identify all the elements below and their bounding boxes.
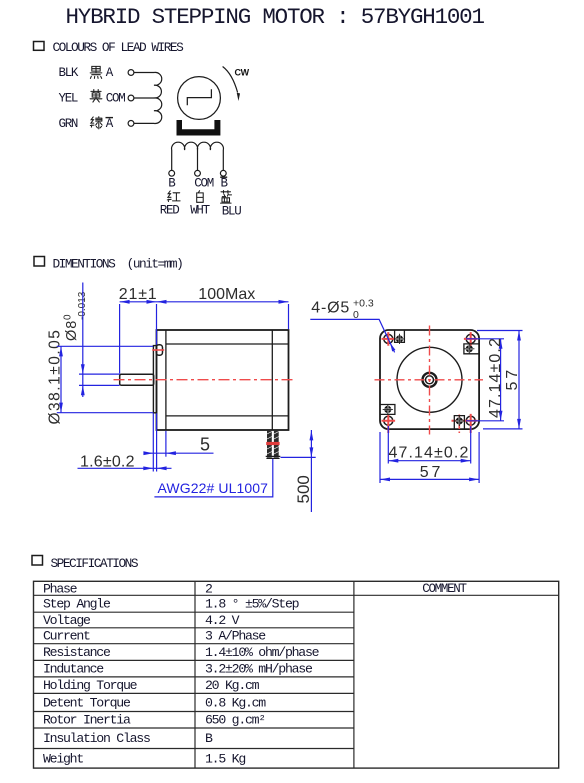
section checkbox: dimentions xyxy=(34,257,45,267)
ext line hole TR right xyxy=(466,338,504,340)
arrow 47r top xyxy=(499,339,503,349)
dim line dia8 xyxy=(82,283,84,398)
svg-text:100Max: 100Max xyxy=(198,286,255,303)
row line 1 xyxy=(34,594,559,596)
svg-text:Insulation Class: Insulation Class xyxy=(43,731,150,746)
svg-text:500: 500 xyxy=(294,475,313,503)
hole BR xyxy=(466,416,475,425)
hanzi red xyxy=(167,191,180,202)
dim 47.14 right text xyxy=(487,337,504,418)
hole TL cross xyxy=(382,332,396,346)
pilot flange xyxy=(153,346,156,413)
lead B-bar xyxy=(222,150,224,170)
lead B xyxy=(171,150,173,170)
ext line shaft bottom xyxy=(79,384,120,386)
svg-text:4-Ø5: 4-Ø5 xyxy=(311,300,350,317)
row line 5 xyxy=(34,659,354,661)
hanzi blue xyxy=(221,191,232,204)
flange hole capsule xyxy=(156,345,162,356)
ext line square top right xyxy=(477,330,523,332)
ext line shaft top xyxy=(79,373,120,375)
arrow 57b right xyxy=(469,478,479,482)
terminal A-bar xyxy=(128,121,134,127)
flange square xyxy=(380,330,479,429)
terminal COM2 xyxy=(195,170,201,176)
arrow 47r bottom xyxy=(499,411,503,421)
svg-text:COM: COM xyxy=(106,92,125,106)
hole TL xyxy=(384,334,393,343)
svg-text:47.14±0.2: 47.14±0.2 xyxy=(487,337,504,418)
dim line 1.6 xyxy=(78,467,172,469)
svg-text:21±1: 21±1 xyxy=(119,286,158,303)
leader arrowhead xyxy=(390,343,395,352)
row line 8 xyxy=(34,711,354,713)
svg-text:GRN: GRN xyxy=(59,117,78,131)
svg-text:4.2 V: 4.2 V xyxy=(205,613,240,628)
overline of A-bar xyxy=(106,117,114,119)
svg-text:WHT: WHT xyxy=(190,204,210,218)
screw TR xyxy=(464,344,474,354)
svg-text:CW: CW xyxy=(235,67,250,77)
center vertical centerline xyxy=(429,326,431,435)
column divider 1 xyxy=(194,581,196,768)
overline B-bar xyxy=(220,176,227,178)
dim line 21 and 100Max xyxy=(120,301,289,303)
wire A-bar xyxy=(134,122,154,124)
arrow 1.6 left xyxy=(143,466,153,470)
dim line 47.14 right xyxy=(500,339,502,421)
arrow 21 right xyxy=(147,300,157,304)
pilot circle xyxy=(397,347,462,412)
arrow 100 left xyxy=(157,300,167,304)
ext line square right down xyxy=(478,432,480,483)
svg-text:3.2±20% mH/phase: 3.2±20% mH/phase xyxy=(205,662,313,677)
hanzi yellow xyxy=(90,90,102,103)
top lamination line xyxy=(166,343,289,345)
svg-text:1.4±10% ohm/phase: 1.4±10% ohm/phase xyxy=(205,645,320,660)
dim line 5 xyxy=(145,452,214,454)
hanzi white xyxy=(197,191,204,203)
wire hatch xyxy=(267,432,279,455)
hole BR cross xyxy=(452,414,478,433)
screw BL xyxy=(383,404,393,414)
svg-text:+0.3: +0.3 xyxy=(353,298,374,310)
dim line 47.14 bottom xyxy=(388,460,470,462)
rotor circle xyxy=(178,77,221,120)
leader awg wire xyxy=(154,459,272,497)
dim 57 right text xyxy=(504,367,521,390)
ext line square bottom right xyxy=(483,428,523,430)
svg-text:57: 57 xyxy=(504,367,521,390)
svg-text:0: 0 xyxy=(63,314,74,320)
svg-text:Holding Torque: Holding Torque xyxy=(43,678,138,693)
wire COM xyxy=(134,97,154,99)
CW arc xyxy=(223,67,238,93)
arrow 57r top xyxy=(517,331,521,341)
svg-text:20 Kg.cm: 20 Kg.cm xyxy=(205,678,260,693)
arrow 57r bottom xyxy=(517,419,521,429)
dim line 57 bottom xyxy=(380,478,479,480)
arrow 5 right xyxy=(166,451,176,455)
CW arrowhead xyxy=(237,93,240,101)
ext line flange face xyxy=(156,304,158,345)
ext line body rear xyxy=(288,304,290,329)
svg-text:A: A xyxy=(106,117,114,131)
screw BR red centerline xyxy=(458,415,460,434)
phase B coil xyxy=(172,142,224,150)
ext line hole BR down xyxy=(470,426,472,464)
svg-text:RED: RED xyxy=(160,204,179,218)
svg-text:1.8 ° ±5%/Step: 1.8 ° ±5%/Step xyxy=(205,597,300,612)
ext line pilot bottom xyxy=(57,412,153,414)
hanzi black xyxy=(90,66,102,78)
screw BR pocket xyxy=(454,416,464,429)
row line 3 xyxy=(34,627,354,629)
arrow 500 bottom xyxy=(310,447,314,457)
leader 4-dia5 xyxy=(310,319,394,352)
ext line flange right xyxy=(156,413,158,471)
screw TR pocket xyxy=(464,344,479,354)
shaft boss ring xyxy=(423,373,437,387)
svg-text:HYBRID STEPPING MOTOR : 57BYGH: HYBRID STEPPING MOTOR : 57BYGH1001 xyxy=(66,4,485,30)
front endcap line xyxy=(165,330,167,430)
arrow 57b left xyxy=(380,478,390,482)
svg-text:A: A xyxy=(106,66,114,80)
screw TL xyxy=(394,334,404,344)
arrow dia8 bottom xyxy=(81,385,85,395)
dim 500 text xyxy=(294,475,313,503)
svg-text:COMMENT: COMMENT xyxy=(422,582,467,596)
svg-text:650 g.cm²: 650 g.cm² xyxy=(205,713,265,728)
arrow dia8 top xyxy=(81,364,85,374)
ext line flange left xyxy=(152,413,154,471)
svg-text:B: B xyxy=(221,177,229,191)
svg-text:Current: Current xyxy=(43,629,90,644)
svg-text:Voltage: Voltage xyxy=(43,613,91,628)
svg-text:3 A/Phase: 3 A/Phase xyxy=(205,629,266,644)
motor body outline xyxy=(157,330,289,430)
terminal A xyxy=(128,70,134,76)
phase A coil xyxy=(154,72,162,123)
svg-text:5: 5 xyxy=(200,435,210,455)
row line 6 xyxy=(34,676,354,678)
shaft centerline xyxy=(114,379,297,381)
row line 7 xyxy=(34,692,354,694)
lead wire 1 xyxy=(267,430,272,458)
table outer border xyxy=(34,581,559,768)
hole BL cross xyxy=(382,414,396,433)
svg-text:0.8 Kg.cm: 0.8 Kg.cm xyxy=(205,695,266,710)
svg-text:2: 2 xyxy=(205,581,212,596)
svg-text:AWG22# UL1007: AWG22# UL1007 xyxy=(158,480,269,496)
screw BR xyxy=(454,416,464,426)
screw BL pocket xyxy=(381,405,395,415)
hole BL xyxy=(384,416,393,425)
shaft circle xyxy=(426,376,434,384)
hole TR xyxy=(466,334,475,343)
screw TL pocket xyxy=(395,331,405,343)
ext line pilot top xyxy=(57,345,153,347)
ext line hole BL down xyxy=(387,426,389,464)
rotor step glyph xyxy=(187,89,211,105)
dim line 500 xyxy=(310,430,312,512)
shaft xyxy=(120,374,154,385)
arrow 21 left xyxy=(120,300,130,304)
ext line hole BR right xyxy=(466,420,504,422)
ext line wire end xyxy=(281,456,316,458)
terminal B-bar xyxy=(220,170,226,176)
svg-text:YEL: YEL xyxy=(59,92,78,106)
terminal COM xyxy=(128,95,134,101)
svg-text:Step Angle: Step Angle xyxy=(43,597,111,612)
svg-text:B: B xyxy=(205,731,213,746)
row line 9 xyxy=(34,727,354,729)
wire A xyxy=(134,72,154,74)
svg-text:BLU: BLU xyxy=(222,205,241,219)
svg-text:Weight: Weight xyxy=(43,751,83,766)
svg-text:Indutance: Indutance xyxy=(43,662,104,677)
stator bracket xyxy=(177,120,221,136)
row line 4 xyxy=(34,643,354,645)
section checkbox: specifications xyxy=(32,556,43,566)
arrow 1.6 right xyxy=(157,466,167,470)
svg-text:COLOURS OF LEAD WIRES: COLOURS OF LEAD WIRES xyxy=(53,40,185,55)
column divider 2 xyxy=(353,581,355,768)
lead COM2 xyxy=(197,150,199,170)
svg-text:Detent Torque: Detent Torque xyxy=(43,695,131,710)
svg-text:B: B xyxy=(168,177,176,191)
center horizontal centerline xyxy=(375,379,484,381)
hanzi green xyxy=(90,117,102,129)
svg-text:Rotor Inertia: Rotor Inertia xyxy=(43,713,131,728)
svg-text:SPECIFICATIONS: SPECIFICATIONS xyxy=(51,556,139,571)
row line 2 xyxy=(34,611,354,613)
wire end ticks xyxy=(266,456,281,458)
hole TR cross xyxy=(464,332,478,346)
ext line square left down xyxy=(379,432,381,483)
section checkbox: colours of lead wires xyxy=(34,42,45,51)
dim dia38.1 text xyxy=(47,329,64,425)
ext line endcap xyxy=(165,431,167,457)
bottom lamination line xyxy=(166,415,289,417)
svg-text:DIMENTIONS (unit=mm): DIMENTIONS (unit=mm) xyxy=(53,256,183,271)
arrow 38 top xyxy=(59,346,63,356)
arrow 38 bottom xyxy=(59,403,63,413)
svg-text:47.14±0.2: 47.14±0.2 xyxy=(389,444,470,461)
dim line dia38.1 xyxy=(60,346,62,412)
flange hole centerline xyxy=(152,349,164,351)
dim line 57 right xyxy=(518,331,520,429)
row line 10 xyxy=(34,748,354,750)
svg-text:1.5 Kg: 1.5 Kg xyxy=(205,751,245,766)
ext line shaft end xyxy=(119,304,121,374)
terminal B xyxy=(169,170,175,176)
lead wire 2 xyxy=(274,430,279,458)
arrow 5 left xyxy=(143,451,153,455)
svg-text:57: 57 xyxy=(420,464,443,481)
arrow 500 top xyxy=(310,430,314,440)
svg-text:Resistance: Resistance xyxy=(43,645,111,660)
dim dia8 text xyxy=(63,291,89,341)
arrow 100 right xyxy=(279,300,289,304)
arrow 47b left xyxy=(388,459,398,463)
svg-text:BLK: BLK xyxy=(59,66,79,80)
svg-text:COM: COM xyxy=(194,177,213,191)
arrow 47b right xyxy=(461,459,471,463)
rear endcap line xyxy=(271,330,273,430)
svg-text:Ø8: Ø8 xyxy=(64,320,80,341)
svg-text:Phase: Phase xyxy=(43,581,78,596)
wire red band xyxy=(266,442,279,445)
